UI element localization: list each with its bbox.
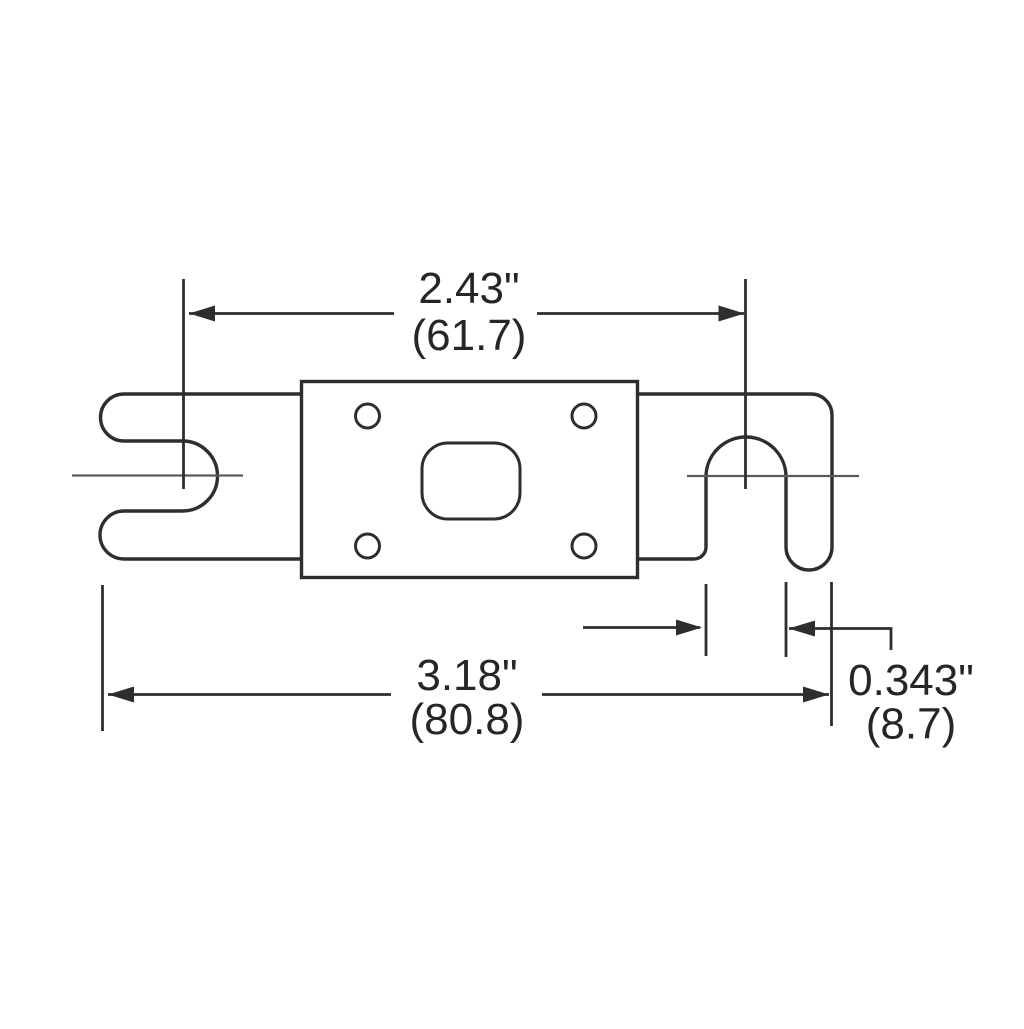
mounting hole bottom-right — [572, 534, 596, 558]
dimension line 3.18 left segment with arrow — [108, 693, 391, 696]
slot width leader with arrow pointing left — [789, 629, 891, 651]
left centerline — [72, 474, 243, 476]
extension line slot left — [705, 584, 708, 656]
extension line left stud center — [182, 279, 185, 489]
svg-text:(61.7): (61.7) — [412, 311, 527, 360]
dimension line 3.18 right segment with arrow — [542, 693, 829, 696]
mounting hole top-right — [572, 404, 596, 428]
extension line right stud center — [744, 279, 747, 489]
extension line bottom left — [101, 585, 104, 731]
right centerline — [687, 475, 859, 477]
right terminal (lug, slot opens downward) — [637, 394, 832, 570]
svg-text:2.43": 2.43" — [418, 264, 519, 313]
dimension line 2.43 right segment with arrow — [537, 312, 744, 315]
svg-text:(80.8): (80.8) — [410, 695, 525, 744]
svg-text:3.18": 3.18" — [416, 651, 517, 700]
mounting hole bottom-left — [356, 534, 380, 558]
dimension line 2.43 left segment with arrow — [189, 312, 394, 315]
slot width arrow pointing right — [583, 626, 700, 629]
mounting hole top-left — [356, 404, 380, 428]
svg-text:0.343": 0.343" — [848, 656, 974, 705]
left terminal (forked lug, slot opens left) — [100, 394, 302, 559]
center window — [422, 443, 520, 519]
svg-text:(8.7): (8.7) — [866, 700, 956, 749]
extension line bottom right long — [830, 582, 833, 726]
extension line slot right — [785, 582, 788, 657]
fuse body — [302, 382, 638, 578]
